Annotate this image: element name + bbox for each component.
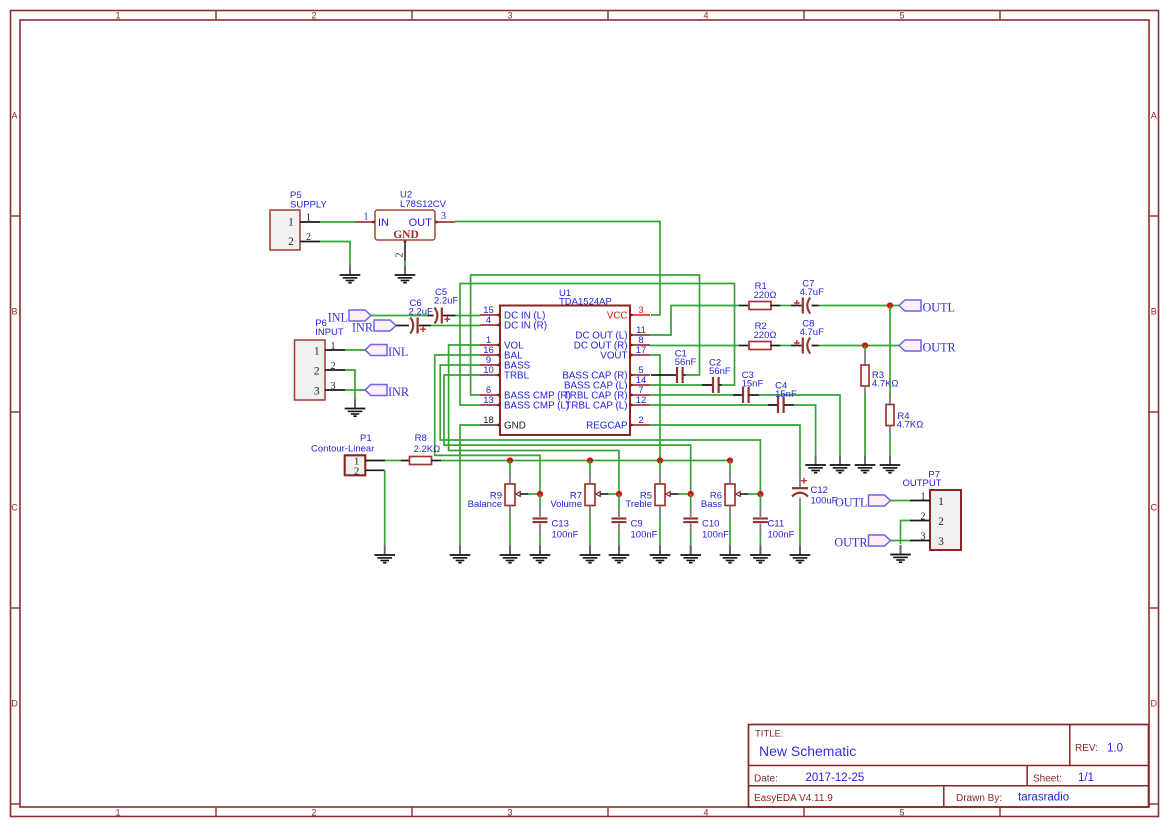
capacitor C7 4.7uF	[791, 279, 824, 314]
capacitor C8 4.7uF	[791, 319, 824, 354]
svg-text:2: 2	[354, 465, 360, 477]
resistor R1 220	[739, 281, 780, 310]
svg-text:Sheet:: Sheet:	[1033, 774, 1062, 785]
net flag OUTL (output line)	[899, 300, 955, 314]
ground at R5	[659, 546, 661, 556]
svg-text:L78S12CV: L78S12CV	[400, 199, 447, 210]
wire U1.6 to C1	[471, 275, 700, 395]
svg-text:INR: INR	[352, 320, 374, 334]
svg-text:Treble: Treble	[625, 499, 652, 510]
svg-text:2: 2	[311, 807, 316, 817]
svg-text:1: 1	[938, 496, 944, 508]
wire C8 to OUTR flag	[819, 345, 900, 347]
regulator U2 L78S12CV	[355, 190, 455, 262]
capacitor C6 2.2uF	[409, 298, 433, 334]
svg-text:100nF: 100nF	[631, 530, 658, 541]
wire GND: U1.18 to ground	[460, 425, 480, 546]
svg-text:17: 17	[636, 345, 647, 356]
wire P1.2 to ground	[384, 470, 386, 545]
wire junction to C9	[618, 494, 620, 508]
junction R9 wiper	[537, 491, 543, 497]
wire junction to C11	[759, 494, 761, 508]
wire R5 bottom to ground	[659, 506, 661, 516]
capacitor C11 100nF	[753, 519, 795, 541]
wire OUTR to P7.3	[891, 540, 911, 542]
wire U1.8 to R2	[650, 345, 740, 347]
ground at R7	[589, 546, 591, 556]
svg-text:1: 1	[363, 212, 368, 223]
net flag OUTR (at P7)	[834, 535, 890, 549]
svg-text:10: 10	[483, 365, 494, 376]
capacitor C10 100nF	[683, 519, 729, 541]
wire R6 wiper to junction	[749, 493, 761, 495]
svg-text:56nF: 56nF	[675, 357, 697, 368]
svg-text:B: B	[1151, 307, 1157, 317]
net flag INR (at P6)	[365, 385, 410, 399]
capacitor C2 56nF	[650, 358, 731, 394]
connector P7	[903, 470, 962, 551]
wire R9 bottom to ground	[509, 506, 511, 516]
wire VOUT: U1.17 to control bus	[650, 355, 660, 461]
svg-text:1: 1	[314, 346, 320, 358]
ground at R4	[889, 456, 891, 466]
svg-text:Drawn By:: Drawn By:	[956, 793, 1002, 804]
wire R7 bottom to ground	[589, 506, 591, 516]
wire C3 to ground	[759, 395, 840, 456]
svg-text:Balance: Balance	[468, 499, 502, 510]
junction bus-R6	[727, 457, 733, 463]
svg-text:INL: INL	[388, 345, 408, 359]
svg-text:1: 1	[115, 10, 120, 20]
svg-text:2: 2	[921, 511, 926, 522]
wire U1.11 to R1	[650, 306, 740, 336]
wire C12 to ground	[799, 507, 801, 547]
svg-text:5: 5	[899, 10, 904, 20]
wire C7 to OUTL flag	[819, 305, 900, 307]
svg-text:SUPPLY: SUPPLY	[290, 200, 327, 211]
ground at C4	[815, 456, 817, 466]
svg-text:220Ω: 220Ω	[754, 330, 777, 341]
svg-text:3: 3	[441, 211, 446, 222]
wire INR to C6	[396, 325, 409, 327]
ground at U1 GND	[459, 546, 461, 556]
svg-text:2.2uF: 2.2uF	[434, 295, 458, 306]
svg-text:2: 2	[311, 10, 316, 20]
wire C9 to ground	[618, 524, 620, 534]
svg-text:4: 4	[486, 315, 491, 326]
connector P1	[311, 433, 385, 477]
wire junction to C10	[690, 494, 692, 508]
wire bus to R7 top	[589, 461, 591, 476]
wire bus to R9 top	[509, 461, 511, 476]
svg-text:4.7KΩ: 4.7KΩ	[872, 379, 899, 390]
net flag INL (at P6)	[365, 345, 408, 359]
svg-text:2: 2	[331, 361, 336, 372]
svg-text:C: C	[1151, 503, 1158, 513]
svg-text:R8: R8	[415, 433, 427, 444]
ground at U2	[404, 266, 406, 276]
svg-text:REV:: REV:	[1075, 743, 1098, 754]
svg-text:C10: C10	[702, 519, 719, 530]
svg-text:REGCAP: REGCAP	[586, 421, 628, 432]
svg-text:220Ω: 220Ω	[754, 290, 777, 301]
svg-text:INR: INR	[388, 385, 410, 399]
wire R6 bottom to ground	[729, 506, 731, 516]
svg-text:3: 3	[938, 536, 944, 548]
IC U1 TDA1524AP	[480, 288, 650, 435]
svg-text:EasyEDA V4.11.9: EasyEDA V4.11.9	[754, 793, 833, 804]
ground at C11	[759, 546, 761, 556]
svg-text:IN: IN	[378, 217, 389, 229]
svg-text:OUTR: OUTR	[834, 535, 868, 549]
svg-text:DC IN (R): DC IN (R)	[504, 321, 547, 332]
svg-text:2017-12-25: 2017-12-25	[806, 772, 865, 784]
wire bus to R6 top	[729, 461, 731, 476]
svg-text:VOUT: VOUT	[600, 351, 627, 362]
svg-text:4.7uF: 4.7uF	[800, 327, 824, 338]
svg-text:3: 3	[507, 10, 512, 20]
wire P5.2 to ground	[320, 242, 350, 266]
svg-text:INL: INL	[328, 310, 348, 324]
svg-text:tarasradio: tarasradio	[1018, 792, 1069, 804]
wire R1 to C7	[780, 305, 791, 307]
svg-text:100nF: 100nF	[552, 530, 579, 541]
svg-text:OUTPUT: OUTPUT	[903, 478, 942, 489]
svg-text:1: 1	[115, 807, 120, 817]
junction R5 wiper	[688, 491, 694, 497]
capacitor C3 15nF	[650, 370, 763, 403]
potentiometer R9 Balance	[468, 484, 529, 510]
wire BASS: U1.9 to bass wiper	[440, 365, 760, 494]
svg-text:1.0: 1.0	[1107, 743, 1123, 755]
wire R3 to ground	[864, 386, 866, 396]
svg-text:A: A	[11, 111, 17, 121]
svg-text:2: 2	[938, 516, 944, 528]
wire bus to R5 top	[659, 461, 661, 476]
capacitor C9 100nF	[612, 519, 658, 541]
wire C10 to ground	[690, 524, 692, 534]
svg-text:GND: GND	[504, 421, 526, 432]
wire C11 to ground	[759, 524, 761, 534]
capacitor C5 2.2uF	[428, 287, 459, 324]
svg-text:3: 3	[638, 305, 643, 316]
wire P5.1 to U2.IN	[320, 221, 355, 223]
ground at P1	[384, 546, 386, 556]
wire U1.13 to C2	[460, 284, 735, 406]
svg-text:Volume: Volume	[550, 499, 582, 510]
svg-text:15nF: 15nF	[742, 379, 764, 390]
net flag OUTL (at P7)	[835, 495, 891, 509]
wire C5 to U1.15	[456, 315, 481, 317]
net flag INR (input)	[352, 320, 396, 334]
svg-text:OUT: OUT	[409, 217, 433, 229]
svg-text:TRBL CAP (L): TRBL CAP (L)	[565, 401, 627, 412]
svg-text:TRBL: TRBL	[504, 371, 530, 382]
junction bus-R9	[507, 457, 513, 463]
wire C6 to U1.4	[431, 325, 480, 327]
svg-text:2: 2	[638, 415, 643, 426]
wire TRBL: U1.10 to treble wiper	[444, 375, 691, 494]
net flag OUTR (output line)	[899, 340, 957, 354]
svg-text:56nF: 56nF	[709, 366, 731, 377]
svg-text:12: 12	[636, 395, 647, 406]
svg-text:TITLE:: TITLE:	[755, 729, 784, 740]
wire R9 wiper to junction	[529, 493, 540, 495]
svg-text:VCC: VCC	[607, 311, 628, 322]
capacitor C4 15nF	[650, 381, 797, 414]
potentiometer R5 Treble	[625, 484, 678, 510]
svg-text:2: 2	[288, 236, 294, 248]
capacitor C12 100uF	[792, 475, 838, 508]
svg-text:Date:: Date:	[754, 774, 778, 785]
ground at R6	[729, 546, 731, 556]
wire INL to C5	[371, 315, 429, 317]
svg-text:3: 3	[921, 531, 926, 542]
svg-text:4: 4	[703, 807, 708, 817]
svg-text:OUTL: OUTL	[835, 495, 868, 509]
ground at R3	[864, 456, 866, 466]
ground at C10	[690, 546, 692, 556]
wire R4 to ground	[889, 426, 891, 436]
resistor R8 2.2K	[401, 433, 441, 465]
svg-text:1/1: 1/1	[1078, 772, 1094, 784]
svg-text:2: 2	[395, 252, 406, 257]
svg-text:1: 1	[306, 213, 311, 224]
potentiometer R7 Volume	[550, 484, 608, 510]
wire VCC: U2.OUT to U1.VCC	[455, 222, 660, 316]
capacitor C13 100nF	[533, 519, 579, 541]
wire control bus R8 to pots	[441, 460, 730, 462]
svg-text:3: 3	[314, 386, 320, 398]
ground at C9	[618, 546, 620, 556]
svg-text:B: B	[11, 307, 17, 317]
svg-text:4: 4	[703, 10, 708, 20]
svg-text:BASS CMP (L): BASS CMP (L)	[504, 401, 569, 412]
svg-text:2.2KΩ: 2.2KΩ	[414, 444, 441, 455]
svg-text:13: 13	[483, 395, 494, 406]
wire REGCAP: U1.2 to C12	[650, 425, 800, 475]
svg-text:4.7uF: 4.7uF	[800, 287, 824, 298]
wire R7 wiper to junction	[609, 493, 619, 495]
svg-text:1: 1	[288, 217, 294, 229]
connector P5	[270, 190, 327, 250]
svg-text:TDA1524AP: TDA1524AP	[559, 297, 612, 308]
svg-text:4.7KΩ: 4.7KΩ	[897, 420, 924, 431]
wire VOL: U1.1 to volume wiper	[449, 345, 619, 494]
svg-text:2: 2	[314, 366, 320, 378]
capacitor C1 56nF	[651, 349, 697, 384]
wire OUTL to P7.1	[891, 500, 911, 502]
svg-text:C13: C13	[552, 519, 569, 530]
wire OUTL junction to R4	[889, 306, 891, 399]
junction bus-R5	[657, 457, 663, 463]
ground at R9	[509, 546, 511, 556]
wire P6.1 to INL flag	[345, 349, 365, 351]
junction R7 wiper	[616, 491, 622, 497]
svg-text:100nF: 100nF	[768, 530, 795, 541]
resistor R2 220	[739, 321, 780, 350]
wire P7.2 to ground	[901, 521, 911, 545]
junction OUTR	[862, 342, 868, 348]
svg-text:C: C	[11, 503, 18, 513]
resistor R4 4.7K	[886, 405, 923, 431]
junction OUTL	[887, 302, 893, 308]
wire P6.2 to ground bus	[345, 370, 355, 400]
connector P6	[295, 318, 346, 400]
svg-text:C11: C11	[768, 519, 785, 530]
wire junction to C13	[539, 494, 541, 508]
wire R5 wiper to junction	[679, 493, 691, 495]
svg-text:3: 3	[507, 807, 512, 817]
svg-text:C9: C9	[631, 519, 643, 530]
svg-text:A: A	[1151, 111, 1157, 121]
svg-text:C12: C12	[811, 485, 828, 496]
svg-text:100uF: 100uF	[811, 496, 838, 507]
svg-text:Contour-Linear: Contour-Linear	[311, 444, 374, 455]
ground at P6	[354, 399, 356, 409]
svg-text:5: 5	[899, 807, 904, 817]
svg-text:1: 1	[331, 341, 336, 352]
svg-text:D: D	[1151, 699, 1158, 709]
wire C13 to ground	[539, 524, 541, 534]
wire P1.1 to R8	[385, 460, 401, 462]
svg-text:100nF: 100nF	[702, 530, 729, 541]
svg-text:P1: P1	[360, 433, 372, 444]
net flag INL (input)	[328, 310, 371, 324]
svg-text:2.2uF: 2.2uF	[409, 306, 433, 317]
title block	[749, 725, 1149, 808]
ground at P5	[349, 266, 351, 276]
resistor R3 4.7K	[861, 365, 899, 390]
svg-text:3: 3	[331, 381, 336, 392]
ground at C13	[539, 546, 541, 556]
junction R6 wiper	[757, 491, 763, 497]
wire C4 to ground	[794, 405, 816, 456]
ground at C3	[839, 456, 841, 466]
svg-text:1: 1	[921, 491, 926, 502]
svg-text:GND: GND	[393, 229, 419, 241]
svg-text:2: 2	[306, 232, 311, 243]
ground at P7	[900, 545, 902, 555]
junction bus-R7	[587, 457, 593, 463]
svg-text:OUTL: OUTL	[923, 300, 956, 314]
svg-text:Bass: Bass	[701, 499, 722, 510]
svg-text:18: 18	[483, 415, 494, 426]
ground at C12	[799, 546, 801, 556]
wire U2.2 to ground	[404, 261, 406, 266]
wire P6.3 to INR flag	[345, 389, 365, 391]
wire BAL: U1.16 to balance wiper	[435, 355, 540, 494]
wire OUTR junction to R3	[864, 346, 866, 353]
svg-text:D: D	[11, 699, 18, 709]
svg-text:OUTR: OUTR	[923, 340, 957, 354]
potentiometer R6 Bass	[701, 484, 749, 510]
wire R2 to C8	[780, 345, 791, 347]
svg-text:INPUT: INPUT	[315, 327, 344, 338]
svg-text:New Schematic: New Schematic	[759, 743, 856, 759]
